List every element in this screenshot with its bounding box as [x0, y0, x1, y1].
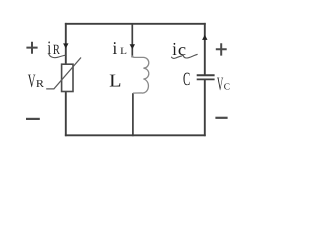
resistor VR box [62, 64, 73, 91]
svg-text:R: R [53, 42, 60, 58]
plus right [216, 43, 227, 55]
minus right [215, 117, 227, 119]
arrow iR down [63, 43, 68, 48]
resistor VR diagonal stroke [46, 58, 81, 89]
wire right rail lower [204, 79, 206, 136]
arrow iC up [202, 35, 207, 40]
svg-text:R: R [36, 79, 45, 90]
capacitor C bottom plate [197, 78, 215, 80]
arrow iL down [130, 44, 135, 49]
minus left [26, 118, 40, 120]
svg-text:L: L [109, 70, 121, 90]
wire middle rail lower [132, 93, 134, 136]
svg-text:i: i [113, 38, 118, 58]
capacitor C top plate [197, 74, 215, 76]
wire left rail lower [65, 92, 67, 137]
ic squiggle underline [171, 54, 197, 58]
svg-text:C: C [183, 69, 190, 90]
iR swash [49, 53, 66, 57]
plus left [26, 42, 37, 54]
svg-text:L: L [120, 46, 127, 57]
inductor L coil [132, 55, 149, 93]
wire right rail upper [204, 23, 206, 75]
wire top [65, 23, 206, 25]
svg-text:C: C [224, 82, 230, 92]
wire bottom [65, 134, 206, 136]
svg-text:i: i [172, 39, 177, 59]
wire left rail upper [65, 23, 67, 64]
wire middle rail upper [131, 24, 133, 58]
svg-text:V: V [28, 71, 36, 92]
svg-text:V: V [217, 74, 224, 95]
